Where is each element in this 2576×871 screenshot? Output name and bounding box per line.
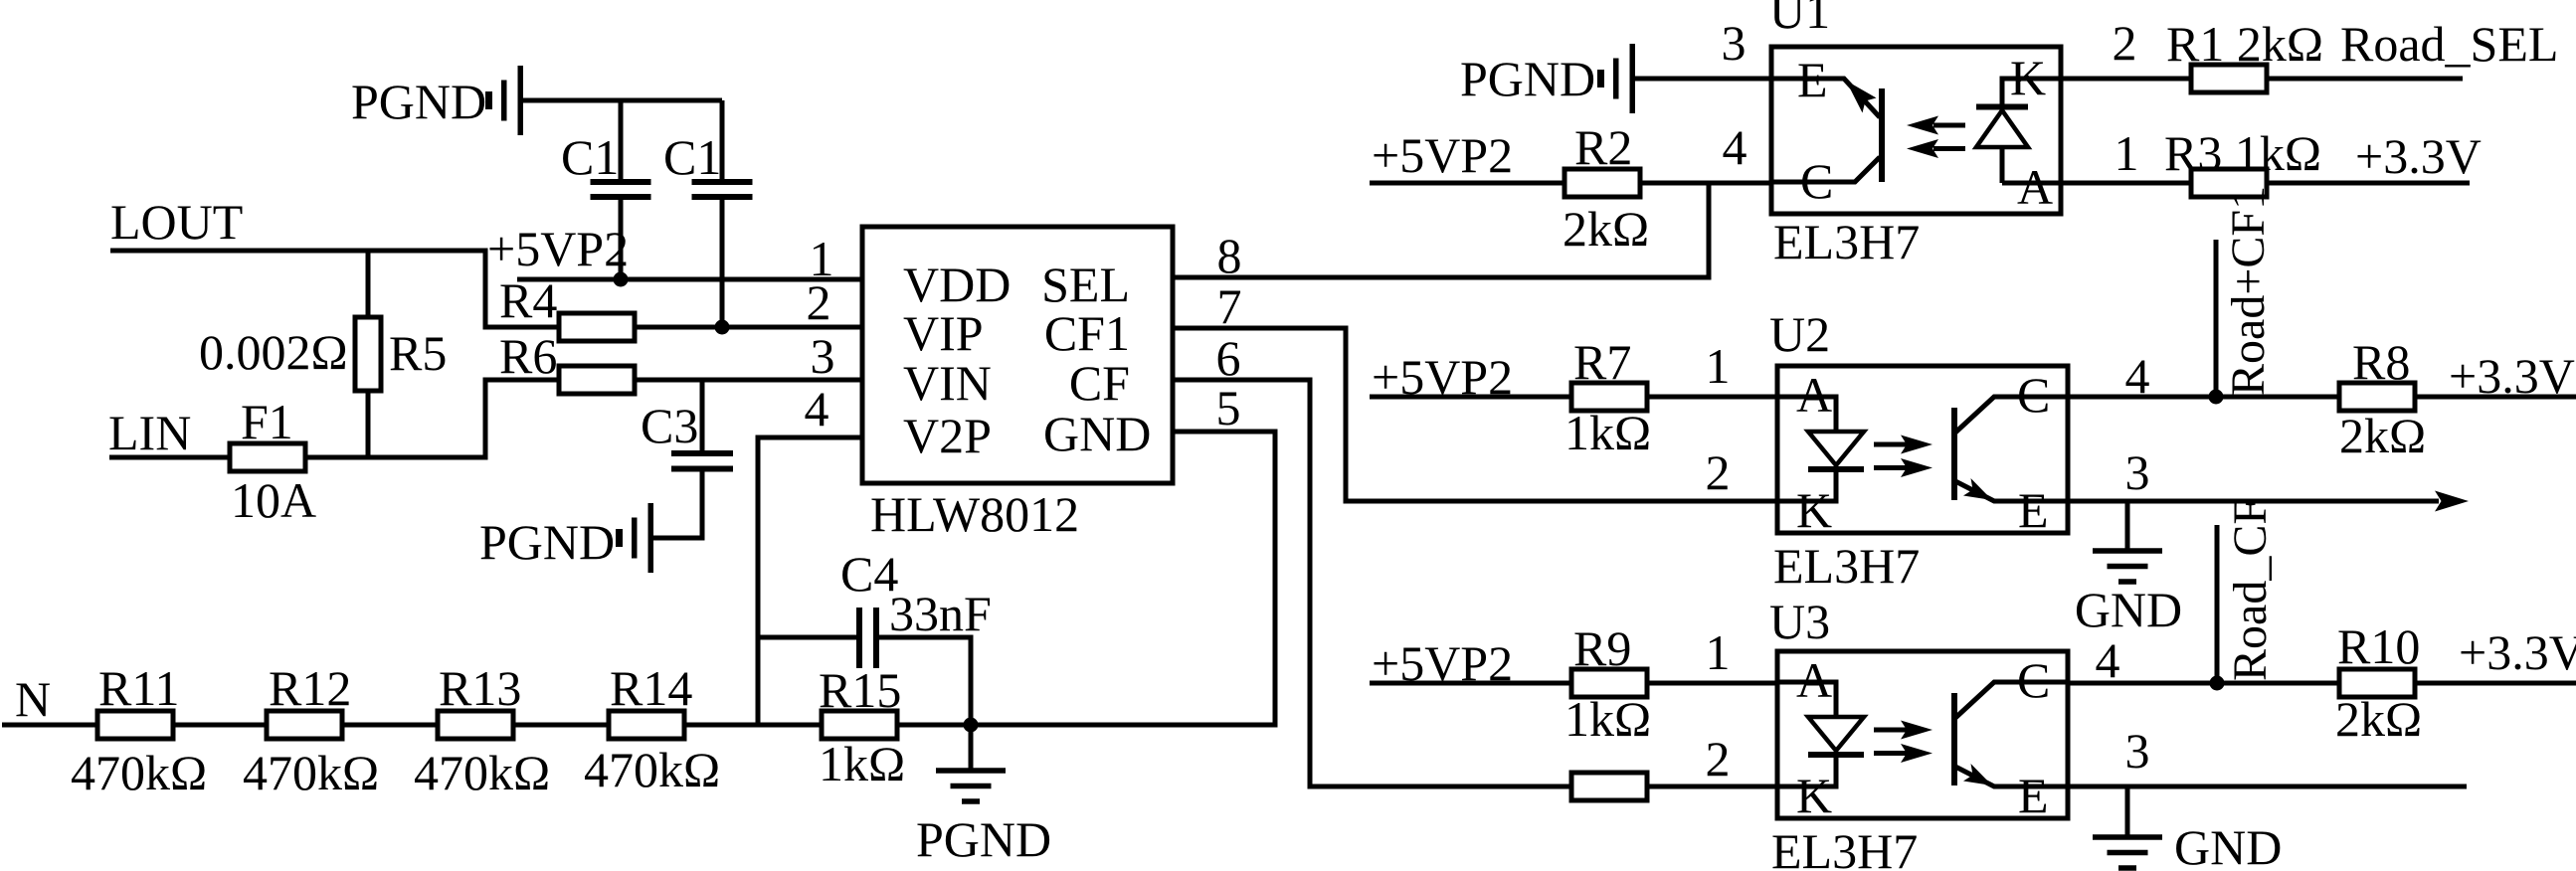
svg-text:K: K <box>1796 482 1832 538</box>
svg-text:Road_SEL: Road_SEL <box>2340 16 2558 72</box>
svg-text:V2P: V2P <box>903 408 992 463</box>
svg-text:U2: U2 <box>1769 306 1830 362</box>
svg-text:4: 4 <box>2096 632 2120 688</box>
svg-text:R5: R5 <box>389 325 447 381</box>
svg-text:K: K <box>1796 768 1832 823</box>
svg-text:R4: R4 <box>499 272 557 328</box>
svg-text:PGND: PGND <box>1460 51 1595 106</box>
svg-text:+5VP2: +5VP2 <box>1372 349 1513 405</box>
svg-text:CF1: CF1 <box>1044 305 1130 361</box>
svg-text:R9: R9 <box>1573 620 1631 676</box>
svg-text:+5VP2: +5VP2 <box>1372 127 1513 183</box>
svg-text:2: 2 <box>2113 15 2137 71</box>
svg-text:C3: C3 <box>641 398 698 453</box>
svg-text:R3 1kΩ: R3 1kΩ <box>2164 125 2321 181</box>
svg-text:N: N <box>15 671 51 727</box>
svg-text:4: 4 <box>2125 348 2150 404</box>
svg-text:R8: R8 <box>2352 334 2410 390</box>
svg-text:5: 5 <box>1216 380 1241 435</box>
svg-text:+3.3V: +3.3V <box>2459 624 2576 680</box>
svg-text:470kΩ: 470kΩ <box>243 745 379 800</box>
svg-text:6: 6 <box>1216 330 1241 386</box>
svg-text:GND: GND <box>2075 582 2182 637</box>
svg-text:R14: R14 <box>610 660 692 716</box>
svg-text:E: E <box>2018 768 2049 823</box>
svg-text:+3.3V: +3.3V <box>2449 348 2575 404</box>
svg-text:C: C <box>1800 153 1833 209</box>
svg-text:2kΩ: 2kΩ <box>1563 201 1649 257</box>
svg-text:3: 3 <box>1722 15 1747 71</box>
svg-text:470kΩ: 470kΩ <box>414 745 550 800</box>
svg-text:LIN: LIN <box>108 405 191 460</box>
svg-text:R13: R13 <box>439 660 521 716</box>
svg-text:2kΩ: 2kΩ <box>2339 408 2426 463</box>
svg-text:U1: U1 <box>1769 0 1830 39</box>
svg-text:10A: 10A <box>231 472 316 528</box>
svg-text:2: 2 <box>807 274 831 330</box>
svg-text:SEL: SEL <box>1041 257 1130 312</box>
svg-text:4: 4 <box>805 381 829 436</box>
svg-text:U3: U3 <box>1769 594 1830 649</box>
svg-text:+3.3V: +3.3V <box>2355 128 2482 184</box>
svg-text:R15: R15 <box>819 662 901 718</box>
svg-text:PGND: PGND <box>351 74 486 129</box>
svg-text:33nF: 33nF <box>889 586 992 641</box>
svg-text:2kΩ: 2kΩ <box>2335 691 2422 747</box>
svg-text:VIP: VIP <box>903 305 984 361</box>
svg-text:CF: CF <box>1069 355 1130 411</box>
svg-text:LOUT: LOUT <box>110 194 243 250</box>
svg-text:1kΩ: 1kΩ <box>819 736 905 791</box>
svg-text:+5VP2: +5VP2 <box>487 221 629 276</box>
svg-text:C1: C1 <box>663 129 721 185</box>
svg-text:HLW8012: HLW8012 <box>870 486 1079 542</box>
svg-text:1: 1 <box>1706 624 1731 680</box>
svg-text:+5VP2: +5VP2 <box>1372 635 1513 691</box>
svg-text:EL3H7: EL3H7 <box>1773 214 1920 269</box>
svg-text:PGND: PGND <box>479 514 615 570</box>
svg-text:R10: R10 <box>2337 618 2420 674</box>
svg-text:3: 3 <box>2125 723 2150 779</box>
svg-text:470kΩ: 470kΩ <box>71 745 207 800</box>
svg-text:C: C <box>2017 367 2050 423</box>
svg-text:PGND: PGND <box>916 811 1051 867</box>
svg-text:R1 2kΩ: R1 2kΩ <box>2166 16 2323 72</box>
svg-text:R6: R6 <box>499 328 557 384</box>
svg-text:2: 2 <box>1706 731 1731 786</box>
svg-text:EL3H7: EL3H7 <box>1773 538 1920 594</box>
svg-text:470kΩ: 470kΩ <box>584 742 720 797</box>
svg-text:4: 4 <box>1723 119 1748 175</box>
svg-text:F1: F1 <box>241 394 293 449</box>
svg-text:8: 8 <box>1217 228 1242 283</box>
svg-text:A: A <box>1796 652 1832 708</box>
svg-text:3: 3 <box>811 328 835 384</box>
svg-text:E: E <box>2018 482 2049 538</box>
svg-text:EL3H7: EL3H7 <box>1771 823 1918 871</box>
svg-text:A: A <box>2017 159 2053 215</box>
svg-text:C1: C1 <box>561 129 619 185</box>
svg-text:A: A <box>1796 367 1832 423</box>
svg-text:1kΩ: 1kΩ <box>1564 691 1651 747</box>
svg-text:1: 1 <box>2115 125 2139 181</box>
svg-text:Road_CF: Road_CF <box>2224 498 2277 681</box>
svg-text:R11: R11 <box>98 660 180 716</box>
svg-text:R12: R12 <box>269 660 351 716</box>
svg-text:1kΩ: 1kΩ <box>1564 405 1651 460</box>
svg-text:1: 1 <box>1706 338 1731 394</box>
svg-text:2: 2 <box>1706 444 1731 500</box>
svg-text:R2: R2 <box>1574 119 1632 175</box>
svg-text:GND: GND <box>2174 819 2282 871</box>
svg-text:C: C <box>2017 652 2050 708</box>
svg-text:E: E <box>1797 52 1828 107</box>
svg-text:VDD: VDD <box>903 257 1011 312</box>
svg-text:VIN: VIN <box>903 355 992 411</box>
svg-text:GND: GND <box>1043 406 1151 461</box>
svg-text:R7: R7 <box>1573 334 1631 390</box>
svg-text:K: K <box>2010 50 2046 105</box>
svg-text:3: 3 <box>2125 444 2150 500</box>
svg-text:7: 7 <box>1217 278 1242 334</box>
svg-text:0.002Ω: 0.002Ω <box>199 324 348 380</box>
svg-text:Road+CF1: Road+CF1 <box>2222 186 2275 396</box>
